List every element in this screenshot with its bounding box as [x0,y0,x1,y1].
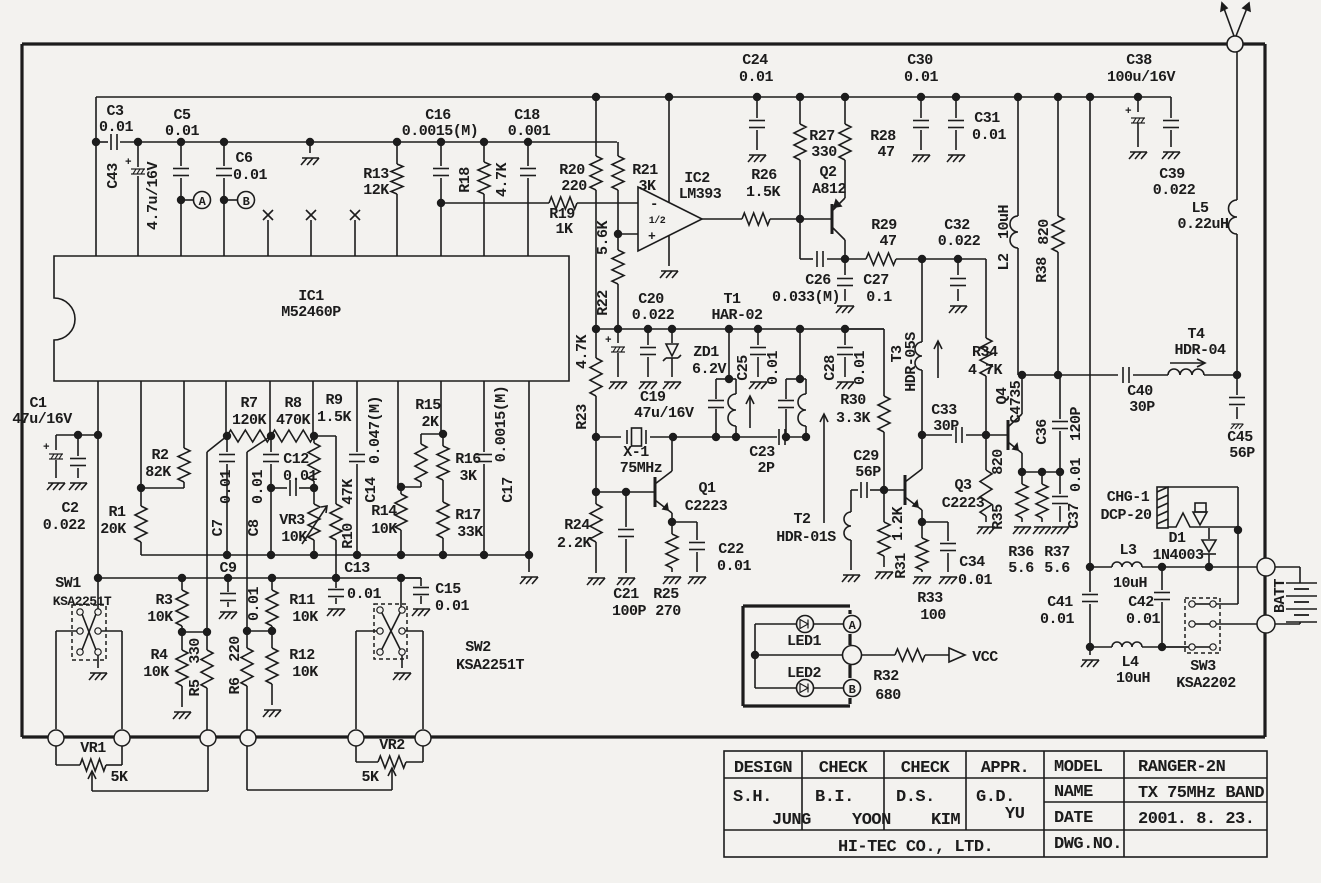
svg-text:R4: R4 [150,647,168,664]
variable resistor VR3 10K [308,504,320,540]
resistor R7 120K [227,430,271,442]
svg-text:C14: C14 [363,477,380,503]
svg-text:R3: R3 [155,592,173,609]
svg-text:0.01: 0.01 [246,587,263,622]
svg-text:+: + [125,157,132,169]
svg-text:33K: 33K [457,524,483,541]
svg-text:12K: 12K [363,182,389,199]
svg-text:T4: T4 [1187,326,1205,343]
svg-text:1.5K: 1.5K [746,184,781,201]
op-amp IC2 LM393 [638,187,702,251]
svg-text:LED1: LED1 [787,633,822,650]
svg-text:C5: C5 [173,107,191,124]
svg-text:C12: C12 [283,451,309,468]
svg-text:R17: R17 [455,507,481,524]
svg-text:6.2V: 6.2V [692,361,727,378]
svg-text:0.01: 0.01 [165,123,200,140]
ground rail stub [309,142,311,153]
svg-text:C2223: C2223 [942,495,985,512]
svg-text:5.6K: 5.6K [595,221,612,256]
svg-text:5K: 5K [110,769,128,786]
svg-text:100P: 100P [612,603,647,620]
svg-text:820: 820 [990,449,1007,475]
capacitor C43 4.7u/16V [137,142,139,167]
svg-text:47u/16V: 47u/16V [12,411,72,428]
capacitor C23 2P [673,436,777,438]
transformer T1 tank2 [799,329,801,379]
svg-text:0.01: 0.01 [99,119,134,136]
resistor R11 10K [271,578,273,590]
svg-text:10K: 10K [371,521,397,538]
resistor R33 100 [921,522,923,538]
svg-text:4.7K: 4.7K [574,335,591,370]
wire VCC bus [96,96,1171,98]
svg-text:KSA2251T: KSA2251T [53,594,112,609]
wire signal bus B [98,577,421,579]
LED indicator box [743,604,850,607]
capacitor C31 0.01 [955,97,957,118]
capacitor C36 120P [1059,375,1061,419]
svg-text:0.001: 0.001 [508,123,551,140]
node BATT terminals [1257,558,1275,576]
svg-text:C28: C28 [822,355,839,381]
capacitor C42 0.01 [1161,567,1163,590]
resistor R4 10K [176,650,188,686]
svg-text:VR3: VR3 [279,512,305,529]
svg-text:Q1: Q1 [698,480,716,497]
svg-text:10K: 10K [292,609,318,626]
svg-text:C34: C34 [959,554,985,571]
svg-text:C25: C25 [735,355,752,381]
svg-text:L3: L3 [1119,542,1137,559]
svg-text:30P: 30P [933,418,959,435]
svg-text:SW3: SW3 [1190,658,1216,675]
svg-text:C4735: C4735 [1008,380,1025,423]
capacitor C14 0.047(M) [356,381,358,452]
svg-text:L5: L5 [1191,200,1209,217]
svg-text:R24: R24 [564,517,590,534]
svg-text:4.7K: 4.7K [968,362,1003,379]
node A [185,199,194,201]
svg-text:0.01: 0.01 [765,351,782,386]
svg-text:0.01: 0.01 [1068,458,1085,493]
wire RF output line [1022,374,1118,376]
svg-text:B: B [243,195,250,209]
svg-text:0.033(M): 0.033(M) [772,289,840,306]
svg-text:DESIGN: DESIGN [734,759,793,778]
svg-text:4.7K: 4.7K [494,163,511,198]
wire battery feed [1090,566,1112,568]
resistor R35 820 [985,435,987,470]
svg-text:B: B [849,683,856,697]
svg-text:100: 100 [920,607,946,624]
wire 6.2V rail [596,328,884,330]
resistor R36 5.6 [1021,472,1023,484]
capacitor C40 30P [1122,367,1124,383]
resistor R16 3K [440,381,442,434]
svg-text:0.01: 0.01 [972,127,1007,144]
capacitor C32 0.022 [922,258,958,260]
svg-text:2.2K: 2.2K [557,535,592,552]
svg-text:C39: C39 [1159,166,1185,183]
resistor R25 270 [671,522,673,534]
svg-text:LED2: LED2 [787,665,822,682]
capacitor C2 0.022 [77,435,79,456]
svg-text:R20: R20 [559,162,585,179]
capacitor C29 56P [851,489,858,491]
svg-text:56P: 56P [1229,445,1255,462]
svg-text:C16: C16 [425,107,451,124]
svg-text:2P: 2P [757,460,775,477]
svg-text:C45: C45 [1227,429,1253,446]
svg-text:10uH: 10uH [996,205,1013,239]
svg-text:CHECK: CHECK [901,759,951,778]
svg-text:DWG.NO.: DWG.NO. [1054,835,1122,854]
resistor R23 4.7K [595,329,597,358]
svg-text:3.3K: 3.3K [836,410,871,427]
svg-text:KIM: KIM [931,811,960,830]
node VCC [949,648,965,662]
capacitor C8 0.01 [269,381,271,435]
capacitor C45 56P [1236,375,1238,395]
svg-text:IC1: IC1 [298,288,324,305]
wire IC1 pin top1 [95,142,97,256]
resistor R32 680 [861,654,895,656]
resistor R15 2K [397,381,399,487]
svg-text:R7: R7 [240,395,257,412]
svg-text:NAME: NAME [1054,783,1093,802]
wire R34 feed [958,258,986,260]
svg-text:47: 47 [877,144,894,161]
capacitor C34 0.01 [922,521,948,523]
svg-text:Q2: Q2 [819,164,837,181]
svg-text:0.1: 0.1 [866,289,892,306]
svg-text:C20: C20 [638,291,664,308]
svg-text:VR2: VR2 [379,737,405,754]
wire Q1 base line [595,437,597,492]
capacitor C6 [223,142,225,166]
svg-text:R14: R14 [371,503,397,520]
transformer T3 HDR-05S [921,259,923,342]
resistor R9 1.5K [312,381,314,436]
zener ZD1 6.2V [671,329,673,343]
svg-text:KSA2202: KSA2202 [1176,675,1236,692]
svg-text:1N4003: 1N4003 [1152,547,1204,564]
svg-text:R33: R33 [917,590,943,607]
capacitor C3 [110,134,112,150]
svg-text:10K: 10K [292,664,318,681]
svg-text:YU: YU [1005,805,1025,824]
svg-text:SW1: SW1 [55,575,81,592]
svg-text:LM393: LM393 [679,186,722,203]
capacitor C12 0.01 [271,487,287,489]
crystal X-1 75MHz [596,436,621,438]
svg-text:R10: R10 [340,523,357,549]
svg-text:5K: 5K [361,769,379,786]
svg-text:0.01: 0.01 [717,558,752,575]
svg-text:Q3: Q3 [954,477,972,494]
capacitor C7 0.01 [225,381,227,435]
svg-text:C32: C32 [944,217,970,234]
svg-text:0.01: 0.01 [739,69,774,86]
svg-text:L2: L2 [996,253,1013,271]
svg-text:C6: C6 [235,150,253,167]
resistor R1 20K [140,381,142,488]
svg-text:R35: R35 [990,504,1007,530]
node B [228,199,238,201]
svg-text:R27: R27 [809,128,835,145]
transformer T1 HAR-02 tank1 [728,329,730,379]
LED2 [755,687,796,689]
svg-text:0.01: 0.01 [218,470,235,505]
svg-text:R2: R2 [151,447,169,464]
capacitor C19 47u/16V [617,329,619,343]
svg-text:VR1: VR1 [80,740,106,757]
svg-text:470K: 470K [276,412,311,429]
svg-text:0.01: 0.01 [250,470,267,505]
svg-text:330: 330 [811,144,837,161]
svg-text:R38: R38 [1034,257,1051,283]
svg-text:C23: C23 [749,444,775,461]
transformer T2 HDR-01S [850,490,852,512]
resistor R2 82K [183,381,185,448]
svg-text:RANGER-2N: RANGER-2N [1138,758,1226,777]
svg-text:5.6: 5.6 [1008,560,1034,577]
svg-text:C29: C29 [853,448,879,465]
svg-text:C8: C8 [246,519,263,537]
svg-text:1/2: 1/2 [649,215,666,227]
svg-text:3K: 3K [459,468,477,485]
svg-text:C27: C27 [863,272,889,289]
resistor R17 33K [437,502,449,538]
svg-text:10uH: 10uH [1113,575,1147,592]
resistor R3 10K [181,578,183,590]
svg-text:C40: C40 [1127,383,1153,400]
svg-text:SW2: SW2 [465,639,491,656]
potentiometer VR1 5K [48,730,64,746]
capacitor C41 0.01 [1089,567,1091,592]
resistor R34 4.7K [980,338,992,376]
svg-text:R25: R25 [653,586,679,603]
svg-text:4.7u/16V: 4.7u/16V [145,161,162,230]
resistor R18 4.7K [483,142,485,162]
inductor L3 10uH [1112,562,1142,567]
svg-text:330: 330 [187,638,204,664]
svg-text:-: - [650,197,658,213]
svg-text:C15: C15 [435,581,461,598]
capacitor C16 0.0015(M) [440,142,442,166]
wire NC pins [267,220,269,256]
op-amp IC1 M52460P body [54,256,569,381]
svg-text:R31: R31 [893,553,910,579]
wire node links [182,631,207,633]
charger CHG-1 DCP-20 [1157,487,1168,528]
svg-text:C43: C43 [105,163,122,189]
inductor L4 10uH [1090,646,1112,648]
svg-text:R12: R12 [289,647,315,664]
svg-text:10K: 10K [147,609,173,626]
svg-text:R36: R36 [1008,544,1034,561]
resistor R26 1.5K [702,218,742,220]
svg-text:CHG-1: CHG-1 [1107,489,1150,506]
transistor Q3 C2223 [884,489,905,491]
svg-text:T2: T2 [793,511,811,528]
title block [724,751,1267,857]
capacitor C1 47u/16V [56,434,98,436]
svg-text:C38: C38 [1126,52,1152,69]
wire R19 input line [441,202,549,204]
svg-text:47K: 47K [340,479,357,505]
svg-text:C3: C3 [106,103,124,120]
antenna [1227,36,1243,52]
svg-text:A812: A812 [812,181,847,198]
svg-text:HDR-01S: HDR-01S [776,529,836,546]
svg-text:47u/16V: 47u/16V [634,405,694,422]
switch SW1 KSA2251T [72,605,106,660]
svg-text:5.6: 5.6 [1044,560,1070,577]
svg-text:R13: R13 [363,166,389,183]
svg-text:220: 220 [227,636,244,662]
svg-text:10uH: 10uH [1116,670,1150,687]
svg-text:C13: C13 [344,560,370,577]
svg-text:0.022: 0.022 [632,307,675,324]
svg-text:S.H.: S.H. [733,788,772,807]
svg-text:0.22uH: 0.22uH [1177,216,1228,233]
svg-text:0.047(M): 0.047(M) [367,396,384,464]
svg-text:C1: C1 [29,395,47,412]
resistor R20 220 [595,97,597,156]
wire ground bus A [141,554,529,556]
capacitor C18 0.001 [527,142,529,166]
border frame [22,42,1227,45]
svg-text:C21: C21 [613,586,639,603]
svg-text:0.01: 0.01 [1040,611,1075,628]
capacitor C33 30P [922,434,952,436]
svg-text:DCP-20: DCP-20 [1100,507,1152,524]
svg-text:C24: C24 [742,52,768,69]
capacitor C20 0.022 [647,329,649,345]
capacitor C37 0.01 [1059,472,1061,494]
resistor R27 330 [799,97,801,124]
svg-text:D1: D1 [1168,530,1186,547]
capacitor C15 0.01 [401,577,421,579]
svg-text:R23: R23 [574,404,591,430]
resistor R24 2.2K [590,504,602,542]
svg-text:82K: 82K [145,464,171,481]
resistor R28 47 [844,97,846,124]
svg-text:ZD1: ZD1 [693,344,719,361]
inductor L5 0.22uH [1236,234,1238,375]
resistor R29 47 [845,258,866,260]
svg-text:M52460P: M52460P [281,304,341,321]
capacitor C25 0.01 [757,329,759,345]
capacitor C39 0.022 [1170,97,1172,118]
svg-text:0.022: 0.022 [1153,182,1196,199]
svg-text:R9: R9 [325,392,343,409]
svg-text:0.01: 0.01 [852,351,869,386]
svg-text:R32: R32 [873,668,899,685]
svg-text:C18: C18 [514,107,540,124]
svg-text:C31: C31 [974,110,1000,127]
svg-text:C37: C37 [1066,503,1083,529]
wire VCC drop line [1089,97,1091,567]
svg-text:R16: R16 [455,451,481,468]
resistor R14 10K [395,494,407,530]
svg-text:0.01: 0.01 [435,598,470,615]
capacitor C28 0.01 [844,329,846,345]
wire left rail [96,141,108,143]
svg-text:0.01: 0.01 [958,572,993,589]
potentiometer VR2 5K [348,730,364,746]
capacitor C9 0.01 [227,578,229,592]
wire LED common [754,624,756,688]
svg-text:B.I.: B.I. [815,788,854,807]
svg-text:270: 270 [655,603,681,620]
svg-text:0.022: 0.022 [43,517,86,534]
resistor R6 220 [241,648,253,686]
svg-text:C33: C33 [931,402,957,419]
svg-text:2001. 8. 23.: 2001. 8. 23. [1138,810,1254,829]
svg-text:CHECK: CHECK [819,759,869,778]
capacitor C27 0.1 [844,259,846,275]
resistor R13 12K [396,142,398,164]
svg-text:56P: 56P [855,464,881,481]
svg-text:0.0015(M): 0.0015(M) [493,386,510,463]
capacitor C30 0.01 [920,97,922,118]
svg-text:100u/16V: 100u/16V [1107,69,1176,86]
capacitor C38 100u/16V [1137,97,1139,112]
svg-text:DATE: DATE [1054,809,1093,828]
svg-text:75MHz: 75MHz [620,460,663,477]
svg-text:680: 680 [875,687,901,704]
svg-text:C42: C42 [1128,594,1154,611]
resistor R12 10K [266,648,278,684]
svg-text:C17: C17 [500,477,517,503]
svg-text:0.01: 0.01 [1126,611,1161,628]
svg-text:C22: C22 [718,541,744,558]
svg-text:20K: 20K [100,521,126,538]
inductor L2 10uH [1017,97,1019,216]
capacitor C24 0.01 [756,97,758,118]
inductor T4 HDR-04 [1168,369,1204,375]
svg-text:HI-TEC CO., LTD.: HI-TEC CO., LTD. [838,838,993,857]
svg-text:D.S.: D.S. [896,788,935,807]
svg-text:TX 75MHz BAND: TX 75MHz BAND [1138,784,1264,803]
svg-text:T1: T1 [723,291,741,308]
transistor Q1 C2223 [654,477,657,507]
svg-text:120P: 120P [1068,407,1085,442]
svg-text:R22: R22 [595,290,612,316]
svg-text:YOON: YOON [852,811,891,830]
svg-text:R6: R6 [227,677,244,695]
svg-text:R28: R28 [870,128,896,145]
svg-text:0.01: 0.01 [233,167,268,184]
svg-text:L4: L4 [1121,654,1139,671]
capacitor C13 0.01 [335,578,337,588]
svg-text:C2223: C2223 [685,498,728,515]
svg-text:C26: C26 [805,272,831,289]
svg-text:30P: 30P [1129,399,1155,416]
wire Q4 emitter bus [1022,471,1060,473]
svg-text:HDR-04: HDR-04 [1174,342,1226,359]
resistor R22 5.6K [612,250,624,284]
svg-text:JUNG: JUNG [772,811,811,830]
capacitor C21 100P [625,492,627,527]
svg-text:X-1: X-1 [623,444,649,461]
resistor R19 1K [549,197,577,209]
svg-text:R5: R5 [187,679,204,697]
svg-text:C7: C7 [210,519,227,536]
